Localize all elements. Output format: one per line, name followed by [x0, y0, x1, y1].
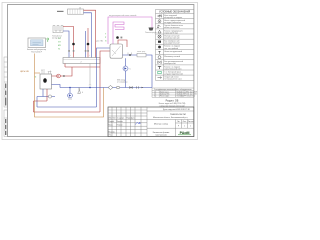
- svg-text:Пров.: Пров.: [109, 125, 114, 127]
- valve on boiler supply: [63, 75, 65, 77]
- expansion line below boiler (blue): [37, 89, 55, 107]
- inline pump box: [137, 53, 146, 57]
- svg-text:Полотенцесуш.: Полотенцесуш.: [145, 32, 158, 34]
- solar circuit rect (magenta): [108, 17, 152, 44]
- red riser from tank top: [118, 40, 127, 47]
- pump P5 vertical: [125, 58, 127, 87]
- tick marks: [137, 86, 139, 88]
- svg-text:УСЛОВНЫЕ ОБОЗНАЧЕНИЯ: УСЛОВНЫЕ ОБОЗНАЧЕНИЯ: [159, 10, 191, 13]
- cable branch to boiler: [35, 72, 41, 74]
- drawing frame: [8, 5, 194, 137]
- DHW supply line right (blue): [123, 55, 153, 88]
- svg-text:Лист: Лист: [183, 121, 187, 123]
- svg-text:1: 1: [190, 125, 191, 127]
- svg-text:6: 6: [82, 92, 83, 94]
- svg-text:сбросной 3 бар: сбросной 3 бар: [164, 31, 177, 34]
- junction dot: [129, 54, 131, 56]
- pump dot P2: [72, 43, 75, 46]
- pipe pair 2 blue: [85, 31, 87, 58]
- svg-text:Петров: Петров: [117, 125, 123, 127]
- pump dot P3: [87, 43, 90, 46]
- svg-text:2: 2: [80, 62, 81, 64]
- svg-text:узел ГВС: узел ГВС: [96, 41, 104, 43]
- buffer tank T1: [110, 44, 123, 58]
- junction dots on CW main: [69, 87, 71, 89]
- svg-text:ТН0632-ОВ-ТМ: ТН0632-ОВ-ТМ: [170, 114, 186, 116]
- pump P5 circle: [123, 66, 128, 71]
- svg-text:Московская область, Балашихинс: Московская область, Балашихинский р-н,: [153, 116, 188, 119]
- boiler flue marks: [41, 70, 45, 74]
- left side stamp upper: [4, 57, 8, 107]
- floor loop return bottom (blue): [37, 106, 97, 108]
- solar coil (magenta serpentine): [113, 22, 124, 31]
- svg-text:Thermolink P: Thermolink P: [31, 51, 43, 54]
- svg-text:Монтаж. схема: Монтаж. схема: [154, 123, 169, 125]
- pipe radiator supply (red): [84, 10, 96, 57]
- green sensor labels: [58, 38, 61, 51]
- svg-text:расширительный: расширительный: [164, 42, 179, 45]
- boiler supply pipe (red): [52, 67, 73, 76]
- strainer (diamond): [108, 86, 113, 90]
- svg-text:насос рец.: насос рец.: [137, 51, 146, 53]
- svg-text:UPS 25-40 2 шт: UPS 25-40 2 шт: [183, 96, 195, 98]
- svg-text:штуцер подключения: штуцер подключения: [164, 74, 183, 76]
- signature (blue): [136, 122, 141, 125]
- svg-text:Дата создания 04.09.2018 17:38: Дата создания 04.09.2018 17:38: [163, 109, 190, 111]
- pump P4 (red circle): [57, 74, 61, 78]
- svg-text:ЦЕПЬ 24В: ЦЕПЬ 24В: [20, 71, 29, 73]
- towel dryer symbol: [149, 28, 154, 31]
- pipe pair 2 red: [87, 28, 89, 58]
- pipe radiator return (blue): [84, 13, 92, 58]
- radiator AP1: [68, 9, 84, 14]
- svg-text:контура отопления: контура отопления: [164, 22, 181, 24]
- grey drop from manifold: [89, 64, 91, 86]
- svg-text:Манометр осевой: Манометр осевой: [164, 55, 180, 58]
- floor loop supply bottom (red): [34, 111, 101, 113]
- safety group marks: [48, 71, 52, 74]
- floor heating coil W1: [53, 26, 63, 34]
- svg-text:Лит: Лит: [177, 121, 180, 123]
- svg-text:от скважины: от скважины: [117, 81, 128, 83]
- svg-text:Утв.: Утв.: [109, 135, 113, 137]
- DHW group: [116, 36, 119, 39]
- svg-text:M1: M1: [58, 45, 61, 47]
- svg-text:Н.контр.: Н.контр.: [109, 131, 116, 133]
- riser red right: [100, 51, 110, 112]
- svg-text:Дата: Дата: [131, 118, 135, 120]
- expansion vessel circle: [48, 95, 51, 98]
- svg-text:монтажная): монтажная): [156, 134, 167, 136]
- boiler return stub (blue): [52, 85, 61, 88]
- pipe floor supply (red): [63, 27, 74, 58]
- pump P6 below CW main: [69, 88, 71, 94]
- svg-text:5: 5: [130, 69, 131, 71]
- svg-text:Раздел: ОВ: Раздел: ОВ: [166, 99, 179, 102]
- row descriptions (tiny grey text): [164, 14, 185, 81]
- svg-text:авт. настройкой: авт. настройкой: [164, 47, 178, 50]
- svg-text:1: 1: [184, 125, 185, 127]
- magenta drop to tank: [112, 31, 114, 44]
- secondary red header: [65, 64, 100, 68]
- svg-text:смесительный узел: смесительный узел: [164, 67, 181, 70]
- svg-text:Разраб.: Разраб.: [109, 121, 116, 123]
- svg-text:РАиМ: РАиМ: [180, 131, 190, 135]
- svg-text:Насос цирк.: Насос цирк.: [160, 96, 170, 98]
- cable 24V (orange): [35, 54, 104, 118]
- valves on risers: [68, 50, 89, 52]
- svg-text:запорный на подаче: запорный на подаче: [164, 16, 182, 19]
- room controller A1: [28, 38, 46, 48]
- svg-text:конденсационный котел газовый: конденсационный котел газовый: [109, 14, 136, 17]
- drain line below boiler (red): [34, 89, 48, 112]
- svg-text:Лист: Лист: [113, 118, 117, 120]
- flow arrow: [142, 87, 144, 89]
- valve bowtie: [130, 87, 133, 89]
- row symbols: [157, 15, 162, 79]
- svg-text:15: 15: [79, 7, 81, 9]
- svg-text:косой магнитный: косой магнитный: [164, 37, 179, 40]
- logo МАиМ: [178, 131, 191, 135]
- svg-text:Листов: Листов: [188, 121, 194, 123]
- svg-text:котла настенного: котла настенного: [164, 27, 179, 29]
- svg-text:мембранный: мембранный: [164, 62, 175, 65]
- riser blue right: [97, 48, 111, 107]
- svg-text:№ докум.: № докум.: [117, 117, 125, 120]
- radiator feed arrow label: [57, 10, 64, 12]
- manifold K1: [63, 58, 100, 64]
- svg-text:Иванов: Иванов: [117, 121, 123, 123]
- left side stamp lower: [4, 110, 8, 137]
- svg-text:Чехол погружаемый: Чехол погружаемый: [164, 50, 182, 53]
- page edge: [2, 3, 198, 140]
- svg-text:3: 3: [154, 96, 155, 98]
- small symbols above line: [128, 53, 132, 56]
- pipe floor return (blue): [63, 31, 69, 58]
- boiler B1: [40, 74, 52, 89]
- svg-text:T1: T1: [58, 48, 60, 50]
- relief valve symbol: [78, 88, 81, 94]
- svg-text:теплоносителя сист.: теплоносителя сист.: [164, 79, 182, 81]
- meter oval: [116, 86, 120, 88]
- green icon right of controller: [47, 38, 49, 40]
- cold water main (blue): [60, 87, 152, 89]
